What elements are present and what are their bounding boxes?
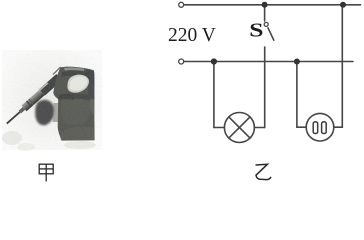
svg-text:220 V: 220 V [168, 25, 216, 46]
svg-text:S: S [249, 19, 263, 42]
